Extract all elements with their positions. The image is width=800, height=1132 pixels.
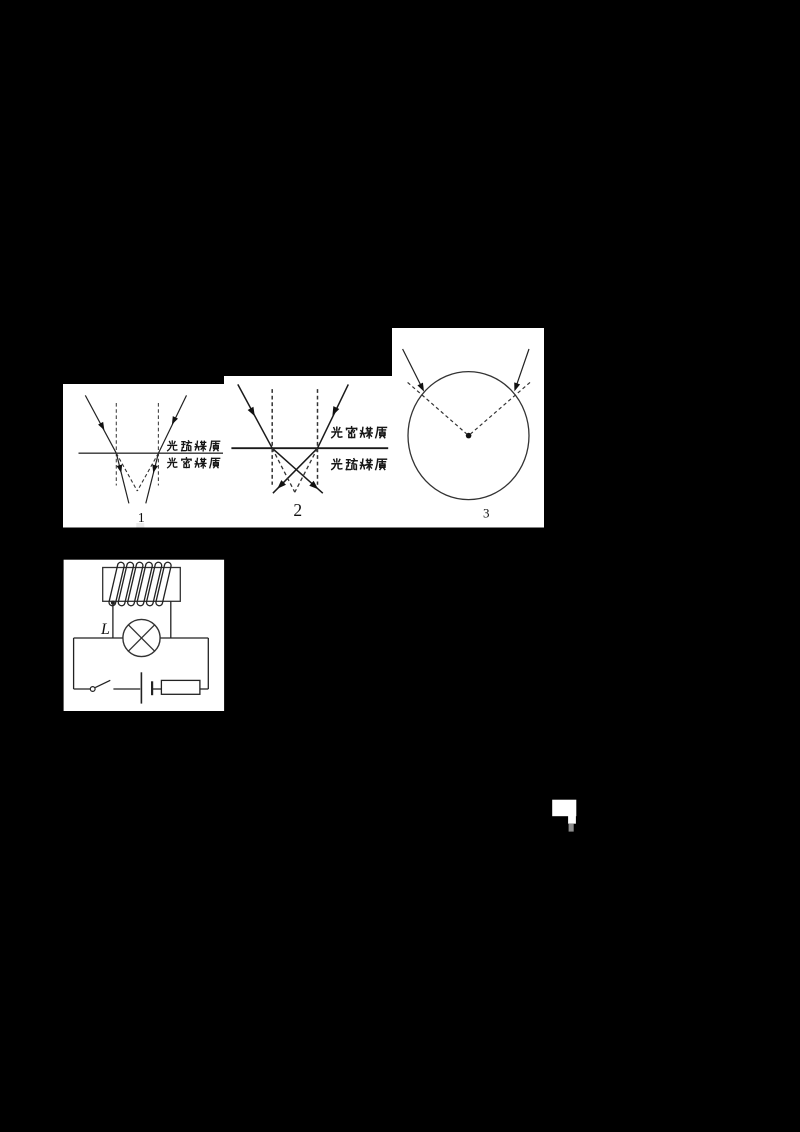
svg-text:3: 3 xyxy=(483,505,490,520)
battery short plate xyxy=(151,681,153,695)
boundary line P2 xyxy=(231,447,388,449)
right rail wire xyxy=(207,638,209,689)
incident ray right P2 xyxy=(318,384,349,448)
refracted ray right P1 xyxy=(146,453,159,503)
wire battery to resistor xyxy=(153,688,161,690)
stray white fragment xyxy=(552,800,576,817)
lamp L xyxy=(123,619,160,656)
faint gray mark under figure number 1 xyxy=(136,523,144,528)
switch lever xyxy=(95,680,110,687)
switch S pivot xyxy=(90,687,95,692)
coil left terminal dot xyxy=(111,601,115,605)
bottom wire to switch xyxy=(74,688,91,690)
panel 2 white background xyxy=(224,376,392,528)
refracted ray left-to-right P2 xyxy=(272,448,323,493)
coil turn 2 xyxy=(118,562,135,607)
panel 1 white background xyxy=(63,384,224,528)
wire coil-left down xyxy=(112,603,114,638)
glass circle P3 xyxy=(408,372,529,500)
wire switch to battery xyxy=(113,688,140,690)
wire resistor to right rail xyxy=(200,688,208,690)
svg-text:2: 2 xyxy=(293,500,302,520)
svg-text:L: L xyxy=(100,621,110,638)
left rail wire xyxy=(73,638,75,689)
dashed continuation V left P1 xyxy=(116,453,137,491)
panel 3 white background xyxy=(392,328,544,528)
battery long plate xyxy=(140,672,142,703)
incident ray left P1 xyxy=(85,395,116,453)
refracted ray left P1 xyxy=(116,453,129,503)
normal dashed right P2 xyxy=(317,389,319,485)
svg-text:1: 1 xyxy=(138,511,145,526)
label guang-shu-mei-zhi P2 lower xyxy=(332,459,387,470)
coil turn 1 xyxy=(108,562,125,607)
inductor core rectangle xyxy=(103,568,181,602)
incident ray left P2 xyxy=(238,384,272,448)
horizontal wire through lamp xyxy=(74,637,209,639)
normal dashed left P1 xyxy=(115,403,117,486)
normal dashed left P2 xyxy=(271,389,273,485)
dashed continuation V right P1 xyxy=(137,453,158,491)
label guang-shu-mei-zhi P1 upper xyxy=(168,441,220,451)
incident ray right P1 xyxy=(158,395,186,453)
coil turn 6 xyxy=(155,562,172,607)
normal dashed right P1 xyxy=(157,403,159,486)
dashed continuation V left P2 xyxy=(272,448,295,492)
incident ray left P3 xyxy=(403,349,422,387)
boundary line P1 xyxy=(79,452,224,454)
label guang-mi-mei-zhi P1 lower xyxy=(168,458,220,468)
coil turn 5 xyxy=(146,562,163,607)
refracted ray right-to-left P2 xyxy=(273,448,318,493)
dashed radius right P3 xyxy=(469,382,530,435)
coil turn 3 xyxy=(127,562,144,607)
resistor R xyxy=(161,680,200,694)
wire coil-right down xyxy=(170,601,172,638)
dashed continuation V right P2 xyxy=(295,448,318,492)
dashed radius left P3 xyxy=(408,382,469,435)
coil turn 4 xyxy=(136,562,153,607)
circuit panel white background xyxy=(64,560,225,711)
center dot P3 xyxy=(466,433,472,439)
incident ray right P3 xyxy=(516,349,529,387)
label guang-mi-mei-zhi P2 upper xyxy=(332,427,387,438)
